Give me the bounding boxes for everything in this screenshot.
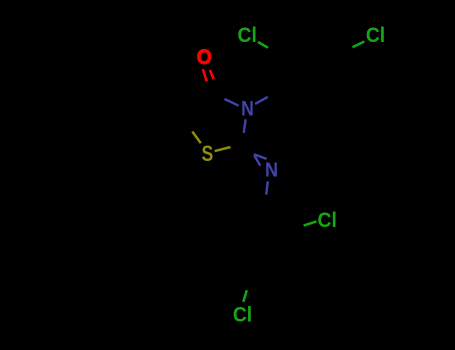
svg-text:N: N xyxy=(265,158,278,181)
svg-text:Cl: Cl xyxy=(318,208,337,232)
svg-text:Cl: Cl xyxy=(238,23,257,47)
svg-text:N: N xyxy=(241,97,254,121)
svg-text:O: O xyxy=(197,46,212,69)
svg-text:Cl: Cl xyxy=(366,23,385,47)
svg-text:S: S xyxy=(202,142,214,166)
svg-text:Cl: Cl xyxy=(233,303,252,327)
